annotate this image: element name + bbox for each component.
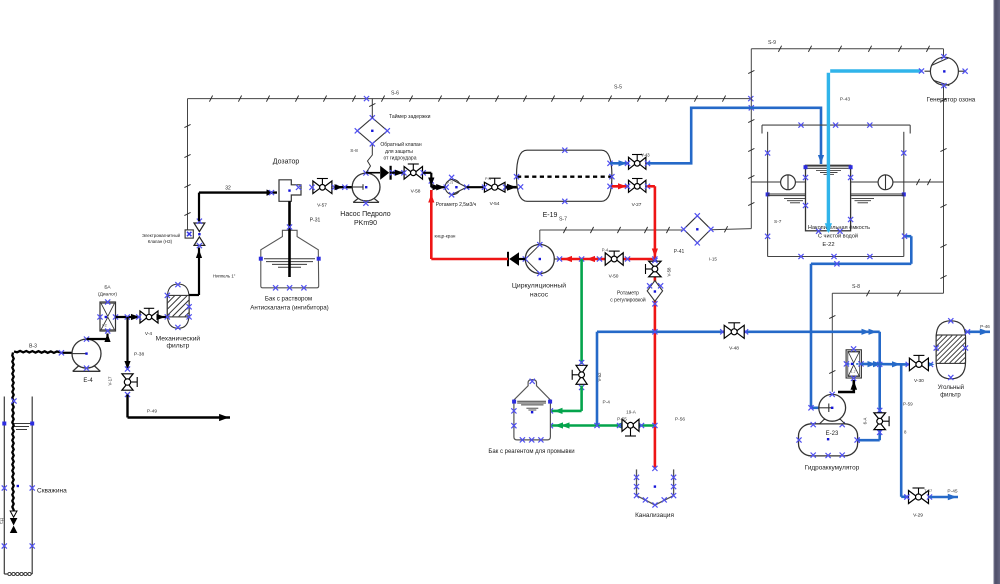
valve V-57	[309, 179, 337, 209]
black drain pipe P-49	[128, 395, 231, 422]
reagent wash tank (Бак с реагентом для промывки)	[488, 379, 574, 455]
svg-text:V-43: V-43	[641, 153, 650, 158]
valve 6-A on accumulator riser	[863, 413, 890, 430]
pipe: rotameter to valve V-54	[436, 184, 484, 190]
black pipe: pump E-23 discharge into filter I-7	[838, 380, 857, 392]
svg-text:для защиты: для защиты	[385, 149, 413, 155]
pipe: filter BA to valve V-4	[116, 314, 142, 320]
pipe 32: to dosing unit	[199, 186, 277, 196]
svg-text:Р-4: Р-4	[602, 248, 609, 253]
valve 19-A on wash line	[617, 410, 685, 437]
svg-text:Генератор озона: Генератор озона	[927, 97, 976, 104]
blue permeate pipe to clean-water tank E-22	[648, 97, 851, 165]
pipe: check valve to valve V-58	[392, 170, 405, 176]
svg-text:V-58: V-58	[411, 189, 421, 195]
svg-text:Ниппель 1": Ниппель 1"	[213, 274, 236, 279]
main blue treated-water pipe	[597, 329, 880, 335]
svg-text:Гидроаккумулятор: Гидроаккумулятор	[805, 464, 860, 471]
svg-text:P-49: P-49	[147, 409, 157, 415]
svg-text:I-7: I-7	[851, 370, 855, 374]
red concentrate pipe from E-19	[612, 183, 629, 189]
circulation pump (Циркуляционный насос)	[512, 242, 566, 298]
svg-text:Обратный клапан: Обратный клапан	[380, 141, 421, 148]
svg-text:S-8: S-8	[852, 284, 860, 290]
svg-text:V-29: V-29	[913, 513, 923, 519]
svg-text:Е-4: Е-4	[83, 378, 93, 384]
valve V-54	[482, 177, 508, 207]
blue pipe: filter I-7 to valve V-30 and carbon filter	[861, 361, 935, 368]
svg-text:P-45: P-45	[947, 489, 957, 495]
left level sensor on tank E-22	[751, 175, 805, 190]
svg-text:Угольный: Угольный	[938, 384, 964, 391]
svg-text:19-А: 19-А	[626, 410, 637, 415]
pump E-4	[59, 337, 101, 385]
well tank (Скважина)	[2, 397, 67, 576]
svg-text:Р-4: Р-4	[485, 177, 491, 181]
signal line vertical S-5/S-9 riser	[748, 49, 754, 229]
svg-text:кнцр-кран: кнцр-кран	[435, 234, 456, 239]
svg-text:P-41: P-41	[674, 249, 685, 255]
svg-text:Ротаметр: Ротаметр	[617, 291, 639, 297]
blue riser pipe to hydro accumulator E-23	[855, 332, 883, 443]
svg-text:Канализация: Канализация	[635, 512, 674, 519]
svg-text:Р-П: Р-П	[447, 181, 454, 185]
filter I-7 above pump E-23	[844, 346, 864, 381]
svg-text:фильтр: фильтр	[166, 343, 189, 350]
svg-text:P-31: P-31	[310, 218, 321, 224]
signal line S-6 vertical segment to solenoid valve	[184, 99, 190, 230]
svg-text:Ротаметр 2,5м3/ч: Ротаметр 2,5м3/ч	[436, 202, 477, 208]
signal line S-6 / S-5 top horizontal	[188, 85, 754, 102]
delay timer (Таймер задержки) P-diamond	[350, 99, 430, 154]
svg-text:Антискаланта (ингибитора): Антискаланта (ингибитора)	[250, 305, 328, 312]
svg-text:P-46: P-46	[980, 324, 990, 329]
svg-text:Скважина: Скважина	[37, 488, 67, 495]
svg-text:P-4: P-4	[603, 400, 611, 406]
svg-text:Накопительная ёмкость: Накопительная ёмкость	[808, 225, 870, 231]
valve V-43 on permeate line	[610, 153, 650, 170]
antiscalant solution tank (Бак с раствором Антискаланта)	[250, 230, 328, 311]
solenoid valve NC (Электромагнитный клапан НЗ)	[142, 219, 205, 249]
check valve at circulation pump outlet	[508, 252, 526, 266]
rotameter with control valve (Ротаметр с регулировкой)	[610, 258, 671, 307]
svg-text:с регулировкой: с регулировкой	[610, 297, 646, 304]
svg-text:БА: БА	[104, 285, 111, 291]
svg-text:6-А: 6-А	[863, 418, 868, 425]
signal line S-7 from circulation pump to diamond P-41	[540, 217, 752, 244]
signal line S-9 to ozone generator	[751, 40, 943, 57]
red recirculation pipe to circulation pump	[561, 256, 655, 262]
svg-text:S-9: S-9	[768, 40, 776, 46]
outer tank top bracket	[762, 123, 910, 134]
svg-text:Клапан (НЗ): Клапан (НЗ)	[148, 239, 173, 244]
flexible drop pipe from well to pump E-4	[11, 344, 60, 514]
rotameter 2.5 m3/h (Ротаметр 2,5м3/ч)	[436, 175, 477, 208]
cyan ozone pipe from generator into tank E-22	[825, 68, 924, 233]
valve V-58	[401, 164, 426, 195]
pipe: solenoid valve up to line 32	[199, 193, 236, 279]
svg-text:V-57: V-57	[317, 203, 327, 209]
svg-text:Насос Педроло: Насос Педроло	[340, 211, 391, 218]
red recirculation return pipe up to feed line	[428, 190, 508, 259]
blue pipe P-4 from wash line to main blue line	[597, 332, 610, 426]
svg-text:Дозатор: Дозатор	[273, 159, 300, 166]
svg-text:Циркуляционный: Циркуляционный	[512, 282, 566, 290]
valve V-17	[108, 366, 138, 397]
svg-text:от гидроудара: от гидроудара	[384, 156, 417, 162]
blue pipe: tank E-22 outlet down to pump E-23	[808, 234, 911, 411]
svg-text:фильтр: фильтр	[940, 392, 961, 398]
valve V-27 on concentrate line	[625, 179, 650, 209]
svg-text:P-56: P-56	[675, 417, 685, 423]
clean water tank E-22 (Накопительная ёмкость с чистой водой)	[803, 165, 870, 248]
svg-text:S-5: S-5	[614, 85, 622, 91]
svg-text:Механический: Механический	[156, 334, 201, 342]
green lower wash pipe from sewer line junction to reagent tank	[548, 422, 658, 428]
valve V-30	[909, 355, 928, 384]
right level tap on tank E-22	[851, 194, 904, 203]
svg-text:С чистой водой: С чистой водой	[818, 233, 858, 240]
left level tap on tank E-22	[768, 194, 806, 203]
svg-text:32: 32	[225, 186, 231, 192]
page edge shadow band	[994, 0, 1000, 584]
cartridge filter BA (Диалог)	[97, 285, 118, 334]
svg-text:V-17: V-17	[108, 376, 113, 386]
svg-text:(Диалог): (Диалог)	[98, 292, 117, 298]
svg-text:Р-43: Р-43	[840, 97, 850, 103]
svg-text:Е-22: Е-22	[822, 242, 834, 248]
svg-text:S-6: S-6	[391, 91, 399, 97]
svg-text:V-54: V-54	[490, 201, 500, 207]
svg-text:Р-59: Р-59	[903, 402, 913, 407]
svg-text:S-7: S-7	[559, 217, 567, 223]
booster pump on accumulator E-23	[819, 392, 846, 424]
blue outlet arrow P-46 from carbon filter	[965, 324, 990, 335]
pipe: valve V-54 into membrane vessel E-19	[506, 184, 518, 191]
svg-text:Бак с реагентом для промывки: Бак с реагентом для промывки	[488, 449, 574, 455]
pipe: pump PKm90 discharge	[366, 172, 380, 174]
pressure sensor diamond P-41	[674, 213, 718, 261]
svg-text:насос: насос	[530, 292, 549, 299]
svg-text:S-7: S-7	[774, 219, 782, 225]
svg-text:Е-23: Е-23	[826, 431, 839, 437]
check valve (Обратный клапан для защиты от гидроудара)	[380, 141, 422, 180]
svg-text:V-50: V-50	[609, 274, 619, 280]
svg-text:Электромагнитный: Электромагнитный	[142, 233, 181, 238]
svg-text:В-3: В-3	[29, 344, 37, 350]
carbon filter (Угольный фильтр)	[910, 318, 993, 398]
pipe: pump E-4 to filter BA	[87, 334, 111, 343]
right level sensor on tank E-22	[851, 175, 944, 190]
dosing unit (Дозатор)	[273, 159, 301, 202]
svg-text:V-48: V-48	[729, 346, 739, 352]
green wash pipe with valve V-52	[572, 259, 602, 390]
pipe branch P-38 down to valve V-17	[124, 317, 144, 370]
svg-text:V-27: V-27	[632, 202, 642, 208]
foot valve / strainer at bottom of well drop pipe	[0, 511, 17, 533]
svg-text:V-30: V-30	[914, 378, 924, 384]
dip tube from dosing unit into antiscalant tank	[287, 201, 321, 277]
svg-text:PKm90: PKm90	[354, 220, 377, 227]
svg-text:Таймер задержки: Таймер задержки	[389, 113, 431, 120]
pipe: mechanical filter up to solenoid valve	[189, 248, 202, 296]
valve V-29	[904, 488, 933, 519]
membrane vessel E-19	[514, 148, 615, 220]
svg-text:P-38: P-38	[134, 352, 144, 358]
svg-text:ЕД: ЕД	[0, 518, 4, 524]
svg-text:I-2: I-2	[102, 324, 106, 328]
valve V-50	[602, 248, 623, 280]
pump Насос Педроло PKm90	[340, 170, 391, 227]
outer tank walls (enclosure of E-22)	[765, 132, 906, 259]
pipe: valve V-4 to mechanical filter	[157, 314, 168, 320]
green pipe into reagent tank (upper)	[548, 386, 582, 415]
blue pipe P-59 down to valve V-29	[901, 364, 913, 499]
pipe: valve V-58 elbow to rotameter	[423, 173, 446, 190]
mechanical filter vessel	[148, 282, 206, 350]
hydro accumulator tank E-23 (Гидроаккумулятор)	[796, 422, 859, 471]
valve V-48 on main blue pipe	[724, 323, 744, 352]
svg-text:P-55: P-55	[617, 417, 627, 422]
svg-text:I-15: I-15	[709, 257, 717, 262]
connection from pump to delay timer	[366, 144, 372, 173]
svg-text:Т-47: Т-47	[924, 488, 933, 493]
sewer (Канализация)	[634, 466, 676, 519]
valve V-4	[136, 308, 158, 337]
signal line S-8 from ozone generator / level sensor to pump E-23	[829, 85, 946, 392]
svg-text:V-58: V-58	[667, 267, 672, 277]
ozone generator (Генератор озона)	[925, 54, 976, 103]
svg-text:Бак с раствором: Бак с раствором	[265, 295, 312, 302]
red concentrate main vertical pipe to sewer	[648, 186, 659, 468]
svg-text:V-4: V-4	[145, 331, 153, 337]
pipe: valve V-57 to pump PKm90	[335, 184, 353, 190]
svg-text:S-8: S-8	[350, 148, 358, 154]
blue outlet arrow P-45	[930, 489, 959, 501]
svg-text:Е-19: Е-19	[543, 212, 558, 219]
